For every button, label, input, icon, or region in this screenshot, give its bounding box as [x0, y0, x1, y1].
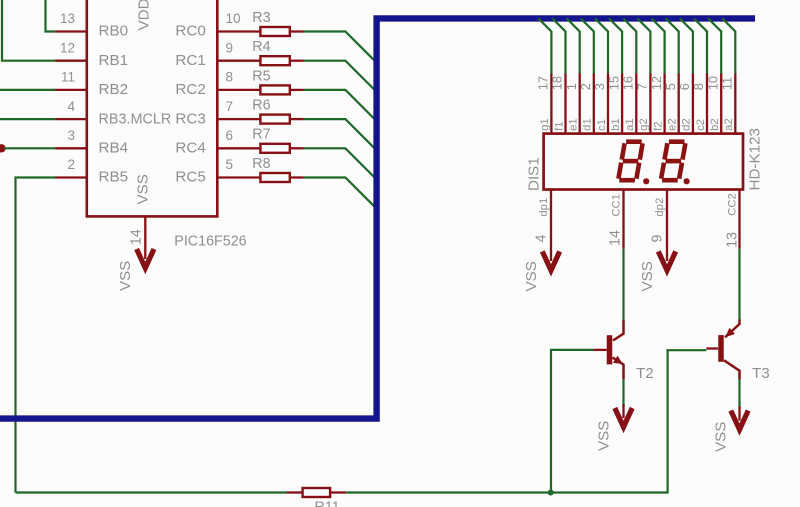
pin 9 RC1	[175, 40, 259, 69]
pin 10 b2	[705, 74, 721, 135]
svg-text:11: 11	[61, 70, 75, 85]
pin 5 RC5	[175, 157, 259, 186]
ground VSS symbol at IC pin 14	[137, 249, 154, 268]
svg-text:RC1: RC1	[175, 52, 205, 69]
svg-text:DIS1: DIS1	[526, 157, 543, 191]
svg-text:VDD: VDD	[136, 0, 153, 31]
wire bus rip to display pin 6	[680, 18, 693, 73]
svg-text:e2: e2	[667, 118, 679, 131]
svg-text:6: 6	[677, 83, 692, 90]
wire bus rip to display pin 3	[595, 18, 608, 73]
pin 2 RB5	[56, 157, 129, 186]
svg-text:T2: T2	[636, 365, 654, 382]
svg-text:13: 13	[725, 232, 741, 248]
svg-text:14: 14	[128, 229, 144, 245]
display decimal point 1	[643, 178, 649, 184]
ground VSS symbol at T3 collector	[731, 407, 748, 430]
wire CC1 to T2 collector	[622, 249, 624, 320]
svg-text:R5: R5	[252, 68, 270, 84]
pin 5 e2	[663, 74, 679, 135]
wire net from RB5 down left side	[16, 178, 57, 493]
wire R7 to bus	[304, 148, 376, 178]
svg-text:a1: a1	[624, 118, 636, 131]
junction node T2 base	[548, 490, 554, 496]
resistor R6	[252, 98, 304, 124]
transistor T3 (PNP)	[706, 320, 739, 380]
svg-text:2: 2	[578, 83, 593, 90]
svg-text:7: 7	[226, 99, 234, 114]
transistor T2 (NPN)	[593, 320, 623, 380]
resistor R11	[287, 488, 347, 507]
wire bus rip to display pin 5	[666, 18, 679, 73]
svg-text:4: 4	[67, 99, 75, 114]
svg-text:g2: g2	[638, 118, 650, 131]
svg-text:R6: R6	[252, 98, 270, 114]
svg-text:c2: c2	[695, 119, 707, 131]
svg-text:10: 10	[226, 11, 241, 26]
wire bus rip to display pin 8	[694, 18, 707, 73]
wire R3 to bus	[304, 32, 376, 62]
svg-text:18: 18	[550, 76, 565, 90]
svg-text:RC2: RC2	[175, 81, 205, 98]
wire net to RB1	[2, 0, 56, 61]
svg-text:b2: b2	[709, 118, 721, 131]
wire bus rip to display pin 2	[581, 18, 594, 73]
pin 4 dp1	[533, 191, 551, 262]
svg-text:9: 9	[650, 235, 666, 243]
pin 10 RC0	[175, 11, 259, 40]
svg-text:10: 10	[705, 76, 720, 90]
resistor R5	[252, 68, 304, 94]
pin 9 dp2	[650, 191, 668, 262]
wire R5 to bus	[304, 90, 376, 120]
resistor R7	[252, 127, 304, 153]
svg-text:2: 2	[67, 157, 75, 172]
svg-text:g1: g1	[539, 118, 551, 131]
pin 6 RC4	[175, 128, 259, 157]
pin 3 c1	[592, 74, 608, 135]
svg-text:f2: f2	[652, 121, 664, 130]
svg-text:c1: c1	[596, 119, 608, 131]
wire T3 collector to VSS	[738, 380, 740, 409]
pin 13 CC2	[725, 191, 741, 249]
pin 7 RC3	[175, 99, 259, 128]
svg-text:HD-K123: HD-K123	[747, 128, 764, 190]
svg-text:RB0: RB0	[99, 23, 129, 40]
svg-text:1: 1	[564, 83, 579, 90]
pin 15 b1	[606, 74, 622, 135]
wire bus rip to display pin 16	[623, 18, 636, 73]
resistor R3	[252, 10, 304, 36]
svg-text:d2: d2	[681, 118, 693, 131]
ground VSS symbol at dp2	[658, 251, 675, 270]
wire R6 to bus	[304, 119, 376, 149]
pin 11 a2	[720, 74, 736, 135]
svg-text:RB3.MCLR: RB3.MCLR	[99, 111, 172, 127]
wire bus rip to display pin 7	[637, 18, 650, 73]
pin 1 e1	[564, 74, 580, 135]
pin 6 d2	[677, 74, 693, 135]
svg-text:RB1: RB1	[99, 52, 129, 69]
svg-text:RB2: RB2	[99, 81, 129, 98]
svg-text:PIC16F526: PIC16F526	[174, 234, 246, 250]
svg-text:VSS: VSS	[117, 261, 134, 291]
svg-text:12: 12	[649, 76, 664, 90]
wire net to RB3	[0, 118, 56, 120]
wire bottom net to T3 base	[346, 350, 706, 492]
resistor R8	[252, 156, 304, 182]
svg-text:8: 8	[226, 70, 234, 85]
wire bus rip to display pin 1	[567, 18, 580, 73]
svg-text:13: 13	[60, 11, 75, 26]
svg-text:8: 8	[691, 83, 706, 90]
bus B1	[0, 18, 755, 418]
display digit 2 (8)	[661, 142, 685, 181]
wire T2 base net	[551, 350, 593, 493]
display digit 1 (8)	[618, 142, 642, 181]
svg-text:16: 16	[621, 76, 636, 90]
svg-text:a2: a2	[723, 118, 735, 131]
wire bus rip to display pin 17	[538, 18, 551, 73]
svg-text:d1: d1	[582, 118, 594, 131]
op IC PIC16F526 U1	[87, 0, 218, 216]
pin 16 a1	[621, 74, 637, 135]
svg-text:6: 6	[226, 128, 234, 143]
wire end cap node	[0, 144, 6, 152]
svg-text:T3: T3	[752, 365, 770, 382]
wire R8 to bus	[304, 178, 376, 208]
wire CC2 to T3 emitter	[738, 249, 740, 320]
svg-text:VSS: VSS	[595, 421, 612, 451]
svg-text:15: 15	[606, 76, 621, 90]
pin 8 c2	[691, 74, 707, 135]
pin 14 CC1	[608, 191, 624, 249]
svg-text:CC2: CC2	[727, 193, 739, 216]
pin 3 RB4	[56, 128, 129, 157]
svg-text:RC0: RC0	[175, 23, 205, 40]
svg-text:9: 9	[226, 40, 234, 55]
svg-text:RB4: RB4	[99, 140, 129, 157]
pin 18 f1	[550, 74, 566, 135]
wire long bottom net	[16, 491, 287, 493]
wire R4 to bus	[304, 61, 376, 91]
svg-text:e1: e1	[568, 118, 580, 131]
svg-text:12: 12	[60, 40, 75, 55]
wire bus rip to display pin 15	[609, 18, 622, 73]
svg-text:17: 17	[536, 76, 551, 90]
svg-text:R3: R3	[252, 10, 270, 26]
pin 2 d1	[578, 74, 594, 135]
pin 12 RB1	[56, 40, 129, 69]
svg-text:VSS: VSS	[135, 174, 152, 204]
svg-text:VSS: VSS	[523, 261, 540, 291]
wire net to RB2	[0, 89, 56, 91]
display DIS1 box	[544, 134, 743, 190]
wire bus rip to display pin 12	[652, 18, 665, 73]
svg-text:RC5: RC5	[175, 169, 205, 186]
svg-text:f1: f1	[553, 121, 565, 130]
svg-text:5: 5	[663, 83, 678, 90]
svg-text:3: 3	[592, 83, 607, 90]
svg-text:14: 14	[608, 230, 624, 246]
wire bus rip to display pin 18	[552, 18, 565, 73]
svg-text:RC4: RC4	[175, 140, 205, 157]
pin 4 RB3.MCLR	[56, 99, 172, 128]
pin 7 g2	[635, 74, 651, 135]
pin 11 RB2	[56, 70, 129, 99]
svg-text:11: 11	[720, 77, 735, 90]
pin 12 f2	[649, 74, 665, 135]
svg-text:RB5: RB5	[99, 169, 129, 186]
pin 17 g1	[536, 74, 552, 135]
ground VSS symbol at dp1	[542, 251, 559, 270]
wire net to RB4	[4, 147, 56, 149]
svg-text:VSS: VSS	[639, 261, 656, 291]
svg-text:b1: b1	[610, 118, 622, 131]
svg-text:R7: R7	[252, 127, 270, 143]
svg-text:4: 4	[533, 235, 549, 243]
svg-text:R11: R11	[315, 500, 340, 507]
svg-text:3: 3	[67, 128, 75, 143]
svg-text:R8: R8	[252, 156, 270, 172]
svg-text:7: 7	[635, 83, 650, 90]
wire net to RB0	[46, 0, 57, 32]
pin 13 RB0	[56, 11, 129, 40]
wire bus rip to display pin 10	[708, 18, 721, 73]
display decimal point 2	[684, 178, 690, 184]
wire T2 emitter to VSS	[622, 379, 624, 406]
svg-text:RC3: RC3	[175, 110, 205, 127]
pin 14 VSS bottom	[128, 217, 145, 260]
wire bus rip to display pin 11	[722, 18, 735, 73]
svg-text:R4: R4	[252, 39, 270, 55]
ground VSS symbol at T2 emitter	[615, 404, 632, 427]
svg-text:CC1: CC1	[610, 194, 622, 217]
pin 8 RC2	[175, 70, 259, 99]
svg-text:dp2: dp2	[654, 198, 666, 217]
svg-text:VSS: VSS	[712, 422, 729, 452]
resistor R4	[252, 39, 304, 65]
svg-text:dp1: dp1	[538, 198, 550, 217]
svg-text:5: 5	[226, 157, 234, 172]
